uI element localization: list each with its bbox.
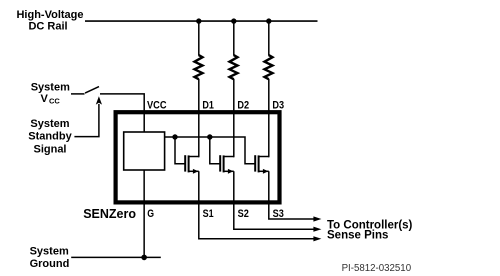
wire gate tap M1	[175, 137, 185, 164]
arrowhead standby to switch	[96, 96, 102, 104]
svg-text:Ground: Ground	[30, 258, 70, 270]
wire R3 to D3 pin	[268, 79, 270, 157]
transistor M2 drain lead	[224, 156, 234, 158]
transistor M3 channel bar	[258, 155, 260, 172]
wire switch to VCC pin	[100, 94, 144, 132]
node System Vcc label	[31, 81, 70, 105]
transistor M3 source lead	[259, 170, 269, 172]
svg-text:D2: D2	[237, 99, 249, 111]
svg-text:System: System	[30, 118, 69, 130]
svg-text:S1: S1	[203, 208, 214, 220]
wire S1 to sense (bottom arrow)	[199, 171, 314, 239]
svg-text:High-Voltage: High-Voltage	[16, 9, 83, 21]
transistor M2 gate bar	[219, 155, 221, 171]
svg-text:System: System	[31, 81, 70, 93]
switch SW lever	[85, 87, 99, 94]
resistor R1	[195, 55, 203, 79]
junction dot rail-R3	[266, 18, 271, 23]
transistor M2 channel bar	[223, 155, 225, 172]
transistor M2 source lead	[224, 170, 234, 172]
svg-text:Sense Pins: Sense Pins	[327, 230, 388, 242]
svg-text:VCC: VCC	[147, 99, 167, 111]
transistor M3 drain lead	[259, 156, 269, 158]
svg-text:S2: S2	[238, 208, 249, 220]
svg-text:V: V	[41, 93, 49, 105]
svg-text:Standby: Standby	[28, 131, 72, 143]
junction dot gate bus M2	[207, 134, 212, 139]
svg-text:S3: S3	[273, 208, 284, 220]
arrowhead S2 sense	[313, 227, 321, 232]
resistor R3	[265, 55, 273, 79]
wire R1 to D1 pin	[198, 79, 200, 157]
node High-Voltage DC Rail label	[16, 9, 83, 32]
wire gate tap M2	[210, 137, 220, 164]
wire S2 to sense (middle arrow)	[234, 171, 314, 229]
svg-text:Signal: Signal	[33, 143, 66, 155]
wire S3 to sense (top arrow)	[269, 171, 314, 219]
svg-text:SENZero: SENZero	[83, 207, 136, 221]
transistor M2 source arrow	[228, 169, 234, 174]
arrowhead S1 sense	[313, 236, 321, 241]
switch SW (System Vcc) left stub	[71, 93, 85, 95]
wire gate bus	[165, 137, 255, 164]
IC U1 internal control block	[124, 132, 165, 170]
svg-text:System: System	[30, 245, 69, 257]
transistor M1 source arrow	[193, 169, 199, 174]
transistor M1 gate bar	[184, 155, 186, 171]
junction dot ground	[141, 255, 147, 261]
wire HV rail	[85, 20, 318, 22]
transistor M3 source arrow	[263, 169, 269, 174]
wire R2 to D2 pin	[233, 79, 235, 157]
svg-text:CC: CC	[49, 97, 60, 106]
wire rail to R1	[198, 21, 200, 55]
svg-text:D1: D1	[202, 99, 214, 111]
transistor M3 gate bar	[254, 155, 256, 171]
node System Ground label	[30, 245, 70, 270]
transistor M1 channel bar	[188, 155, 190, 172]
wire standby signal	[74, 104, 99, 137]
IC U1 SENZero package outline	[116, 112, 280, 202]
node System Standby Signal label	[28, 118, 72, 156]
wire rail to R2	[233, 21, 235, 55]
svg-text:D3: D3	[272, 99, 284, 111]
junction dot gate bus M1	[172, 134, 177, 139]
svg-text:PI-5812-032510: PI-5812-032510	[342, 263, 412, 274]
wire rail to R3	[268, 21, 270, 55]
junction dot rail-R2	[231, 18, 236, 23]
transistor M1 source lead	[189, 170, 199, 172]
svg-text:G: G	[147, 208, 154, 220]
svg-text:DC Rail: DC Rail	[28, 20, 67, 32]
resistor R2	[230, 55, 238, 79]
transistor M1 drain lead	[189, 156, 199, 158]
arrowhead S3 sense	[313, 216, 321, 221]
junction dot rail-R1	[196, 18, 201, 23]
wire G pin to ground	[143, 170, 145, 257]
node To Controller(s) Sense Pins label	[327, 220, 413, 242]
wire system ground	[71, 256, 161, 258]
